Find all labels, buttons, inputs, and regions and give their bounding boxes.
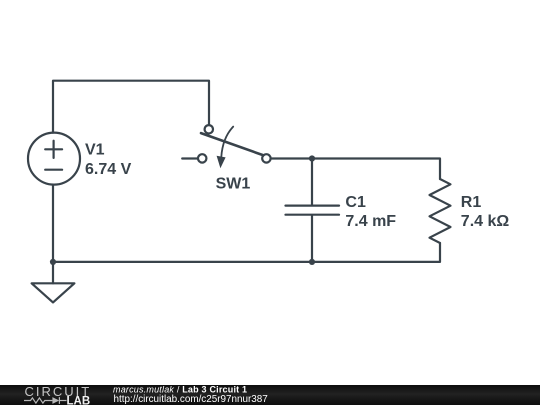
wire bottom rail from ground node to resistor R1 bottom <box>53 243 440 262</box>
wire from SW1 right terminal to resistor R1 top <box>271 159 440 180</box>
switch SW1 left throw terminal pin circle <box>198 154 206 162</box>
wire V1 bottom to ground node <box>52 185 54 262</box>
switch SW1 actuation arrow arc <box>221 127 233 157</box>
ground symbol stem <box>52 262 54 283</box>
node junction dot at capacitor C1 top <box>309 155 315 161</box>
wire from V1 top to switch SW1 top terminal <box>53 81 209 133</box>
svg-text:V1: V1 <box>85 142 105 159</box>
CircuitLab logo schematic glyph: wire, resistor zigzag, diode <box>24 397 67 404</box>
resistor R1 zigzag body <box>430 179 451 243</box>
wire stub at SW1 left throw terminal <box>182 157 198 159</box>
switch SW1 top terminal pin circle <box>205 125 213 133</box>
voltage source V1 circle <box>28 133 80 185</box>
V1 plus sign <box>45 141 62 158</box>
switch SW1 blade <box>201 133 263 155</box>
svg-text:7.4 mF: 7.4 mF <box>345 213 396 230</box>
svg-text:SW1: SW1 <box>216 175 251 192</box>
svg-text:6.74 V: 6.74 V <box>85 161 132 178</box>
svg-text:7.4 kΩ: 7.4 kΩ <box>461 213 510 230</box>
svg-text:http://circuitlab.com/c25r97nn: http://circuitlab.com/c25r97nnur387 <box>114 394 268 405</box>
V1 minus sign <box>45 169 62 171</box>
svg-text:LAB: LAB <box>67 395 91 405</box>
wire capacitor C1 top <box>311 159 313 205</box>
wire capacitor C1 bottom <box>311 216 313 262</box>
capacitor C1 bottom plate <box>286 214 340 216</box>
capacitor C1 top plate <box>286 205 340 207</box>
node junction dot at ground <box>50 259 56 265</box>
ground symbol triangle <box>32 283 75 302</box>
switch SW1 right throw terminal pin circle <box>262 154 270 162</box>
node junction dot at capacitor C1 bottom <box>309 259 315 265</box>
svg-text:C1: C1 <box>345 194 366 211</box>
svg-text:R1: R1 <box>461 194 482 211</box>
switch SW1 arrowhead <box>217 156 226 168</box>
svg-text:marcus.mutlak / Lab 3 Circuit: marcus.mutlak / Lab 3 Circuit 1 <box>113 384 247 394</box>
